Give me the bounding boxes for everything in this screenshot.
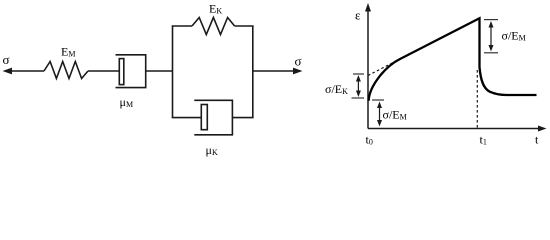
dashpot muM cylinder bbox=[116, 55, 146, 88]
dashed t1 vertical bbox=[476, 70, 478, 128]
wire output to right arrow bbox=[253, 70, 296, 72]
wire Kelvin top-right bbox=[235, 25, 254, 27]
arrow sigma/EM t1 double bbox=[489, 21, 494, 52]
tick sigma/EK top bbox=[353, 73, 364, 75]
wire Kelvin top-left bbox=[172, 25, 192, 27]
svg-text:σ: σ bbox=[3, 52, 10, 67]
dashed asymptote line bbox=[368, 59, 400, 76]
spring EK bbox=[192, 18, 235, 35]
spring EM bbox=[44, 62, 88, 79]
tick sigma/EM t1 top bbox=[484, 19, 498, 21]
svg-text:σ: σ bbox=[295, 54, 302, 69]
wire Kelvin bottom-left bbox=[172, 117, 202, 119]
tick sigma/EK bottom bbox=[352, 97, 365, 99]
svg-text:ε: ε bbox=[355, 8, 361, 23]
wire spring to dashpot M bbox=[88, 70, 119, 72]
arrow sigma/EM origin double bbox=[377, 102, 382, 127]
dashpot muM piston bbox=[119, 59, 124, 85]
tick sigma/EM t1 bottom bbox=[484, 52, 498, 54]
wire left arrow to spring bbox=[9, 70, 44, 72]
creep-recovery curve bbox=[369, 18, 537, 101]
wire dashpot M to Kelvin bbox=[146, 70, 173, 72]
dashpot muK piston bbox=[201, 105, 207, 130]
arrowhead y-axis bbox=[365, 3, 371, 12]
arrowhead right sigma bbox=[293, 68, 303, 75]
axis t (x-axis) bbox=[368, 128, 541, 130]
dashpot muK cylinder bbox=[194, 100, 232, 135]
axis epsilon (y-axis) bbox=[367, 9, 369, 129]
tick sigma/EM origin top bbox=[372, 99, 384, 101]
wire Kelvin bottom-right bbox=[232, 117, 253, 119]
wire Kelvin left vertical bbox=[172, 26, 174, 118]
wire Kelvin right vertical bbox=[252, 26, 254, 118]
arrowhead left sigma bbox=[3, 68, 13, 75]
arrowhead x-axis bbox=[538, 126, 547, 132]
arrow sigma/EK double bbox=[356, 75, 361, 97]
